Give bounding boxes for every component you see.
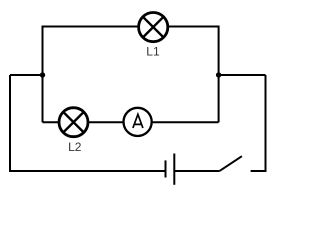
node: left junction [40,72,45,77]
wire: top branch (left vertical, top run, right vertical) [43,27,219,123]
wire: bottom branch run [43,121,219,123]
battery B1: short negative plate [165,160,167,177]
lamp L2 [59,108,88,137]
wire: left node link [10,74,43,76]
battery B1: long positive plate [173,154,175,185]
node: right junction [216,72,221,77]
wire: right node link [219,74,266,76]
wire: battery to switch pivot [174,170,220,172]
lamp L1 [139,13,168,42]
ammeter A1 [124,108,152,136]
switch S1: open blade [220,156,242,171]
wire: left outer down + bottom rail to battery [10,75,166,171]
svg-text:L1: L1 [146,45,160,59]
wire: right outer down + switch fixed contact [251,75,266,171]
svg-text:L2: L2 [68,140,82,154]
